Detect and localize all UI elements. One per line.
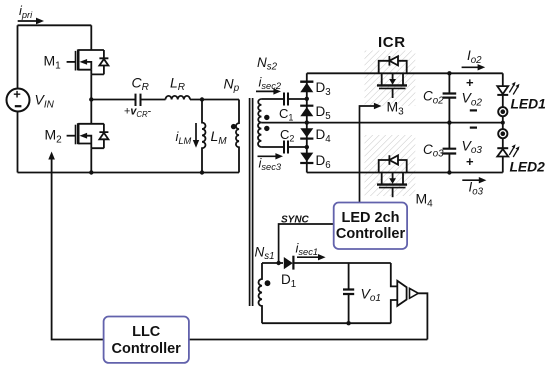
source Vin — [7, 89, 30, 112]
wire: Ns1 top — [262, 262, 283, 264]
wire: top output rail — [307, 72, 503, 74]
node: D4/D6 — [305, 145, 309, 149]
transistor M1 — [67, 49, 109, 74]
capacitor C2 — [284, 141, 288, 154]
svg-text:Np: Np — [224, 75, 240, 94]
node: mid rail right — [501, 121, 505, 125]
svg-text:Controller: Controller — [112, 341, 182, 357]
svg-text:LED1: LED1 — [511, 97, 546, 112]
label - Vo3 + — [470, 126, 477, 128]
svg-text:+: + — [13, 87, 21, 102]
node: LM bottom — [200, 170, 204, 174]
node: LM top — [200, 97, 204, 101]
capacitor Co3 — [448, 123, 450, 173]
LED2 — [497, 147, 508, 149]
arrow Io3 — [462, 179, 480, 181]
wire: LLC to gate drive — [52, 157, 104, 340]
ICR hatched region M4 — [365, 135, 416, 196]
polarity dot Ns1 — [265, 280, 271, 286]
wire: M2 source to bottom rail — [90, 148, 92, 172]
capacitor Co2 — [448, 73, 450, 122]
svg-text:LR: LR — [170, 74, 185, 93]
svg-text:Ns1: Ns1 — [255, 244, 275, 262]
arrow iLM — [195, 123, 197, 142]
svg-text:M4: M4 — [416, 191, 434, 210]
wire: D1 to buffer branch — [294, 262, 391, 264]
buffer triangle — [410, 288, 419, 298]
transistor M3 — [377, 56, 407, 98]
control line to M3 — [360, 106, 376, 203]
wire: C2 to diode node — [288, 146, 307, 148]
svg-text:D1: D1 — [281, 272, 296, 290]
arrow isec1 — [297, 256, 320, 258]
wire: Vin to bottom rail — [17, 112, 19, 173]
svg-text:CR: CR — [132, 74, 149, 93]
LLC controller box — [104, 317, 189, 363]
node: center tap — [305, 120, 309, 124]
svg-text:M1: M1 — [44, 53, 62, 72]
capacitor Vo1 — [348, 263, 350, 323]
diode D4 — [300, 128, 313, 137]
capacitor CR — [136, 94, 141, 106]
wire: Ns2 top to C1 — [261, 98, 284, 100]
wire: mid node to CR — [91, 99, 135, 101]
wire: LLC to buffer output — [189, 339, 428, 341]
wire: M1 drain — [90, 25, 92, 50]
wire: buffer output — [418, 293, 427, 339]
polarity dot Ns2 upper — [264, 115, 269, 120]
wire: term2 to LED2 — [502, 138, 504, 148]
polarity dot Ns2 lower — [264, 126, 269, 131]
svg-text:+vCR-: +vCR- — [124, 106, 152, 119]
wire: bottom output rail — [307, 172, 503, 174]
buffer trapezoid — [397, 281, 406, 306]
svg-text:LM: LM — [211, 128, 228, 147]
arrow gate drive — [48, 152, 55, 160]
svg-text:LLC: LLC — [132, 324, 161, 340]
arrow isec2 — [256, 90, 275, 92]
wire: center tap rail to LEDs mid — [261, 122, 502, 124]
wire: LED1 to term1 — [502, 95, 504, 107]
terminal bottom — [498, 129, 507, 138]
wire: LED2 to bottom rail — [502, 157, 504, 173]
wire: CR to LR — [141, 99, 166, 101]
transistor M4 — [377, 155, 407, 197]
node: D3/D5 — [305, 97, 309, 101]
LED controller box — [334, 203, 407, 250]
ICR hatched region M3 — [365, 51, 416, 107]
svg-text:D5: D5 — [316, 104, 331, 122]
svg-text:Vo2: Vo2 — [462, 90, 483, 109]
diode D5 — [300, 105, 313, 107]
svg-text:Co3: Co3 — [423, 142, 444, 160]
diode D1 — [284, 257, 293, 269]
wire: C1 to diode node — [288, 98, 307, 100]
winding Ns2 — [258, 99, 261, 147]
svg-text:D4: D4 — [316, 127, 332, 145]
LED1 — [497, 86, 508, 94]
svg-text:+: + — [466, 154, 474, 169]
svg-text:D6: D6 — [316, 153, 331, 171]
svg-text:iLM: iLM — [176, 129, 192, 146]
polarity dot Np — [231, 124, 236, 129]
svg-text:C1: C1 — [279, 106, 293, 123]
svg-text:Controller: Controller — [336, 226, 406, 242]
LED1 light arrows — [509, 85, 517, 95]
terminal top — [498, 107, 507, 116]
svg-text:isec1: isec1 — [296, 240, 319, 257]
node: Co2 top — [447, 71, 451, 75]
svg-text:isec2: isec2 — [259, 74, 282, 91]
winding Ns1 — [259, 263, 262, 323]
node: Co3 bottom — [447, 170, 451, 174]
svg-text:M2: M2 — [45, 127, 63, 146]
arrow i_pri — [18, 20, 38, 22]
wire: SYNC — [279, 224, 334, 263]
svg-text:ipri: ipri — [19, 3, 33, 20]
svg-text:Vo1: Vo1 — [361, 285, 381, 304]
buffer input stubs — [391, 263, 398, 323]
svg-text:LED2: LED2 — [510, 159, 546, 174]
wire: left vertical to Vin — [17, 25, 19, 88]
svg-text:Ns2: Ns2 — [257, 55, 278, 73]
wire: right LED rail top — [502, 73, 504, 86]
node: sync tap — [276, 261, 280, 265]
arrow Io2 — [462, 66, 479, 68]
inductor LM — [202, 100, 206, 173]
wire: term1 to term2 — [502, 116, 504, 129]
node: M2 source on rail — [89, 170, 93, 174]
wire: bottom rail primary — [18, 172, 240, 174]
winding Np — [236, 100, 239, 173]
wire: top rail primary — [18, 24, 92, 26]
svg-text:VIN: VIN — [35, 92, 55, 111]
svg-text:Co2: Co2 — [423, 89, 444, 107]
wire: LR to Np — [190, 99, 239, 101]
wire: Ns1 bottom — [262, 322, 391, 324]
node: Co2 bottom / mid rail — [447, 120, 451, 124]
node: Vo1 bottom — [346, 321, 350, 325]
capacitor C1 — [284, 93, 288, 106]
node: mid bridge — [89, 97, 93, 101]
svg-text:D3: D3 — [316, 80, 331, 98]
inductor LR — [166, 96, 190, 100]
transformer core — [250, 98, 253, 306]
diode D6 — [300, 153, 313, 162]
svg-text:LED 2ch: LED 2ch — [341, 210, 399, 226]
wire: Ns2 bottom to C2 — [261, 146, 284, 148]
transistor M2 — [67, 123, 109, 148]
diode D3 — [300, 80, 313, 82]
svg-text:ICR: ICR — [378, 34, 406, 51]
LED2 light arrows — [509, 148, 517, 158]
svg-text:Io2: Io2 — [467, 48, 482, 66]
arrow isec3 — [258, 155, 278, 157]
wire: M1 source to mid node — [90, 74, 92, 99]
wire: M2 drain — [90, 100, 92, 124]
svg-text:+: + — [466, 75, 474, 90]
wire: diode string vertical — [306, 73, 308, 172]
